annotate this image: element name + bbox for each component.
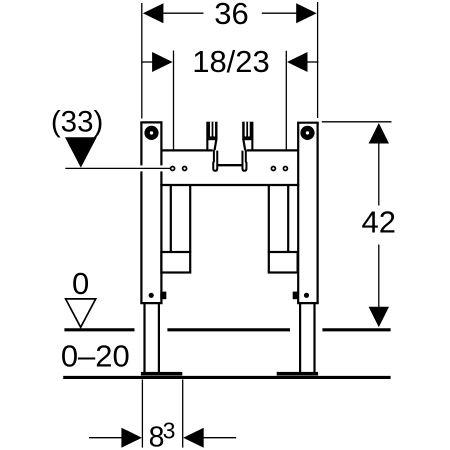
bracket right (269, 252, 298, 273)
arrow 36 left (143, 3, 164, 23)
bracket left (161, 252, 190, 273)
arrow 42 top (369, 123, 389, 144)
left foot tube (145, 303, 159, 372)
dimension line 18/23 (141, 61, 154, 63)
arrow 18/23 right (287, 52, 308, 72)
extension line top for dim 42 (322, 121, 392, 123)
svg-text:(33): (33) (51, 106, 103, 139)
prong left stem and foot (213, 150, 217, 171)
extension line left for dim 8 (141, 380, 143, 448)
arrow 36 right (296, 3, 317, 23)
fixing hole 3 (271, 167, 275, 171)
arrow 8 right (183, 428, 204, 448)
fixing hole 4 (283, 167, 287, 171)
dimension line 8 (89, 437, 123, 439)
leader line halo (138, 165, 165, 171)
raw floor line (63, 376, 390, 379)
prong left (threaded rod fork) (206, 122, 217, 152)
svg-text:0–20: 0–20 (61, 339, 130, 374)
svg-text:3: 3 (163, 417, 176, 443)
right foot tube (300, 303, 314, 372)
right rail clamp screw (304, 293, 309, 298)
crossbar (160, 150, 299, 185)
floor level line 0 (64, 328, 390, 331)
strut right (269, 186, 288, 252)
extension line left for dim 36 (141, 3, 143, 119)
svg-text:36: 36 (214, 0, 248, 31)
fixing hole 2 (183, 167, 187, 171)
arrow 42 bottom (369, 307, 389, 328)
bridge between stems (217, 164, 242, 166)
left base plate (141, 372, 182, 376)
svg-text:18/23: 18/23 (192, 44, 270, 79)
right rail (297, 123, 319, 303)
extension line left for dim 18/23 (173, 51, 175, 151)
arrow 8 left (121, 428, 141, 448)
svg-text:0: 0 (72, 266, 89, 301)
svg-text:42: 42 (362, 204, 396, 239)
right base plate (277, 372, 318, 376)
right rail clamp block (293, 292, 299, 300)
fixing hole 1 (171, 167, 175, 171)
arrow 18/23 left (152, 52, 173, 72)
level mark open triangle 0 (66, 299, 96, 327)
level mark filled triangle (33) (65, 137, 97, 167)
extension line right for dim 36 (317, 2, 319, 118)
dimension line 36 (162, 12, 204, 14)
prong right stem and foot (242, 150, 246, 171)
left rail hanger bolt (147, 129, 156, 138)
dimension line 42 (378, 143, 380, 206)
left rail clamp screw (149, 293, 154, 298)
extension line right for dim 8 (182, 380, 184, 448)
extension line right for dim 18/23 (285, 51, 287, 150)
left rail clamp block (160, 292, 166, 300)
leader line (33) (65, 167, 170, 169)
prong right (threaded rod fork) (242, 122, 253, 152)
left rail (140, 122, 162, 303)
strut left (171, 186, 190, 252)
right rail hanger bolt (303, 129, 312, 138)
